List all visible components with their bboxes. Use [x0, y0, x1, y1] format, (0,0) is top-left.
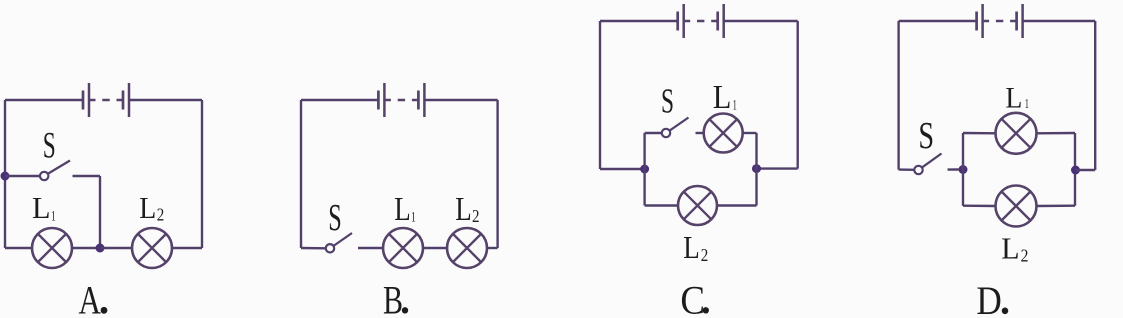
wire B top-left to battery: [301, 99, 378, 101]
wire C right side to right node: [761, 167, 798, 169]
wire A switch fixed contact horizontal: [73, 175, 101, 177]
wire D top branch to lamp L1: [963, 132, 996, 135]
svg-text:1: 1: [1025, 97, 1029, 112]
wire A lamp L2 to bottom-right corner: [172, 247, 202, 249]
label L1 (circuit A): [32, 190, 56, 225]
wire A battery to top-right corner: [129, 99, 202, 101]
battery C cell 1 positive plate: [682, 4, 685, 38]
svg-text:2: 2: [1021, 245, 1029, 265]
wire D top-left to battery: [899, 20, 977, 22]
battery C cell 2 positive plate: [722, 4, 725, 38]
wire D left branch vertical: [962, 133, 964, 206]
wire D right branch vertical: [1074, 133, 1076, 206]
svg-text:L: L: [32, 190, 51, 225]
lamp L2 (circuit D): [996, 186, 1037, 227]
wire B right side: [496, 100, 498, 248]
wire D right node to right side: [1076, 169, 1096, 171]
svg-text:S: S: [661, 82, 674, 121]
junction node A switch tap on left wire: [1, 172, 10, 181]
wire C battery to top-right corner: [724, 20, 798, 22]
label L1 (circuit B): [394, 191, 416, 228]
wire B battery to top-right corner: [424, 99, 497, 101]
battery C cell 2 negative plate: [716, 12, 719, 31]
svg-text:L: L: [1005, 82, 1022, 115]
battery D cell 2 positive plate: [1021, 4, 1024, 38]
label L1 (circuit C): [713, 79, 737, 116]
battery D dashed link between cells: [984, 20, 1017, 22]
wire C lamp L1 to right branch: [743, 132, 757, 134]
lamp L2 (circuit C): [678, 186, 717, 225]
wire B bottom-left to switch: [301, 247, 326, 250]
wire C left side: [599, 21, 601, 169]
wire D lamp L2 to right branch: [1037, 204, 1076, 207]
svg-text:S: S: [918, 115, 934, 157]
battery A cell 2 positive plate: [128, 83, 131, 117]
wire A lamp L1 to junction: [72, 247, 100, 249]
wire D switch to left node: [948, 168, 959, 171]
wire C left branch vertical: [643, 133, 645, 206]
wire B left side: [300, 100, 302, 248]
battery B cell 1 negative plate: [377, 91, 380, 110]
lamp L1 (circuit A): [32, 228, 72, 268]
svg-text:S: S: [328, 197, 342, 239]
lamp L1 (circuit B): [383, 228, 423, 268]
wire C top branch to switch: [645, 132, 662, 134]
switch S (circuit C) pivot contact: [662, 129, 670, 137]
wire C left side to left node: [600, 168, 641, 170]
battery D cell 1 negative plate: [975, 12, 978, 31]
lamp L1 (circuit D): [996, 113, 1037, 154]
label L2 (circuit A): [139, 190, 164, 225]
junction node C left node: [640, 165, 649, 174]
battery A cell 1 positive plate: [88, 83, 91, 117]
svg-text:L: L: [394, 191, 411, 228]
circuit D: [899, 4, 1096, 318]
battery B cell 1 positive plate: [383, 83, 386, 117]
svg-text:A: A: [79, 278, 102, 318]
wire C bottom branch to lamp L2: [645, 204, 678, 206]
switch S (circuit A) blade (open): [48, 161, 70, 174]
junction node D left node: [959, 165, 968, 174]
wire C top-left to battery: [600, 20, 678, 22]
circuit C: [600, 4, 798, 318]
battery D cell 1 positive plate: [981, 4, 984, 38]
svg-text:L: L: [455, 191, 472, 228]
wire C switch to lamp L1: [696, 132, 705, 134]
svg-text:L: L: [1001, 230, 1019, 265]
wire A node to switch pivot: [5, 175, 40, 177]
svg-text:L: L: [713, 79, 732, 116]
wire D left side to switch: [899, 168, 915, 171]
battery A cell 2 negative plate: [122, 91, 125, 110]
label L2 (circuit D): [1001, 230, 1028, 265]
wire D left side: [897, 21, 899, 170]
label L2 (circuit B): [455, 191, 479, 228]
circuit A: [1, 83, 203, 318]
wire D lamp L1 to right branch: [1037, 132, 1076, 135]
wire B switch to lamp L1: [358, 247, 383, 249]
svg-text:2: 2: [701, 245, 709, 265]
wire A right side: [201, 100, 203, 248]
wire C right branch vertical: [755, 133, 757, 206]
switch S (circuit D) blade (open): [922, 154, 941, 168]
junction node C right node: [752, 164, 761, 173]
label L1 (circuit D): [1005, 82, 1029, 115]
switch S (circuit D) pivot contact: [914, 166, 922, 174]
wire A bottom-left to lamp L1: [5, 247, 32, 249]
battery B dashed link between cells: [385, 99, 418, 101]
junction node A bottom junction: [96, 244, 105, 253]
svg-text:1: 1: [51, 208, 56, 224]
switch S (circuit B) blade (open): [334, 233, 352, 246]
junction node D right node: [1071, 166, 1080, 175]
battery B cell 2 positive plate: [423, 83, 426, 117]
svg-text:2: 2: [157, 204, 165, 224]
answer label A period: [101, 307, 108, 314]
lamp L2 (circuit B): [447, 228, 487, 268]
wire B lamp L2 to bottom-right corner: [487, 247, 498, 249]
wire A top-left to battery: [5, 99, 83, 101]
battery C dashed link between cells: [685, 20, 718, 22]
battery C cell 1 negative plate: [676, 12, 679, 31]
label L2 (circuit C): [683, 229, 708, 265]
battery A dashed link between cells: [90, 99, 123, 101]
wire C lamp L2 to right branch: [717, 204, 757, 206]
wire D bottom branch to lamp L2: [963, 204, 996, 207]
battery D cell 2 negative plate: [1015, 12, 1018, 31]
wire A left side upper: [4, 100, 6, 176]
svg-text:1: 1: [733, 98, 737, 114]
svg-text:1: 1: [411, 209, 416, 225]
svg-text:C: C: [680, 278, 705, 318]
battery A cell 1 negative plate: [82, 91, 85, 110]
svg-text:2: 2: [472, 206, 480, 226]
wire A left side lower: [4, 176, 6, 248]
svg-text:L: L: [139, 190, 156, 225]
lamp L1 (circuit C): [704, 114, 743, 153]
svg-text:D: D: [976, 278, 1001, 318]
lamp L2 (circuit A): [132, 228, 172, 268]
switch S (circuit B) pivot contact: [326, 244, 334, 252]
wire B lamp L1 to lamp L2: [423, 247, 447, 249]
wire A junction to lamp L2: [100, 247, 132, 249]
answer label B period: [402, 307, 408, 313]
wire C right side: [797, 21, 799, 169]
wire D battery to top-right corner: [1023, 20, 1096, 22]
wire D right side: [1094, 21, 1096, 170]
circuit B: [301, 83, 498, 318]
switch S (circuit C) blade (open): [670, 118, 689, 131]
answer label D period: [1002, 308, 1009, 315]
svg-text:L: L: [683, 229, 700, 265]
answer label C period: [703, 307, 709, 313]
svg-text:S: S: [43, 126, 56, 167]
svg-text:B: B: [383, 278, 403, 318]
wire A switch branch vertical: [99, 176, 101, 248]
battery B cell 2 negative plate: [417, 91, 420, 110]
switch S (circuit A) pivot contact: [40, 172, 48, 180]
